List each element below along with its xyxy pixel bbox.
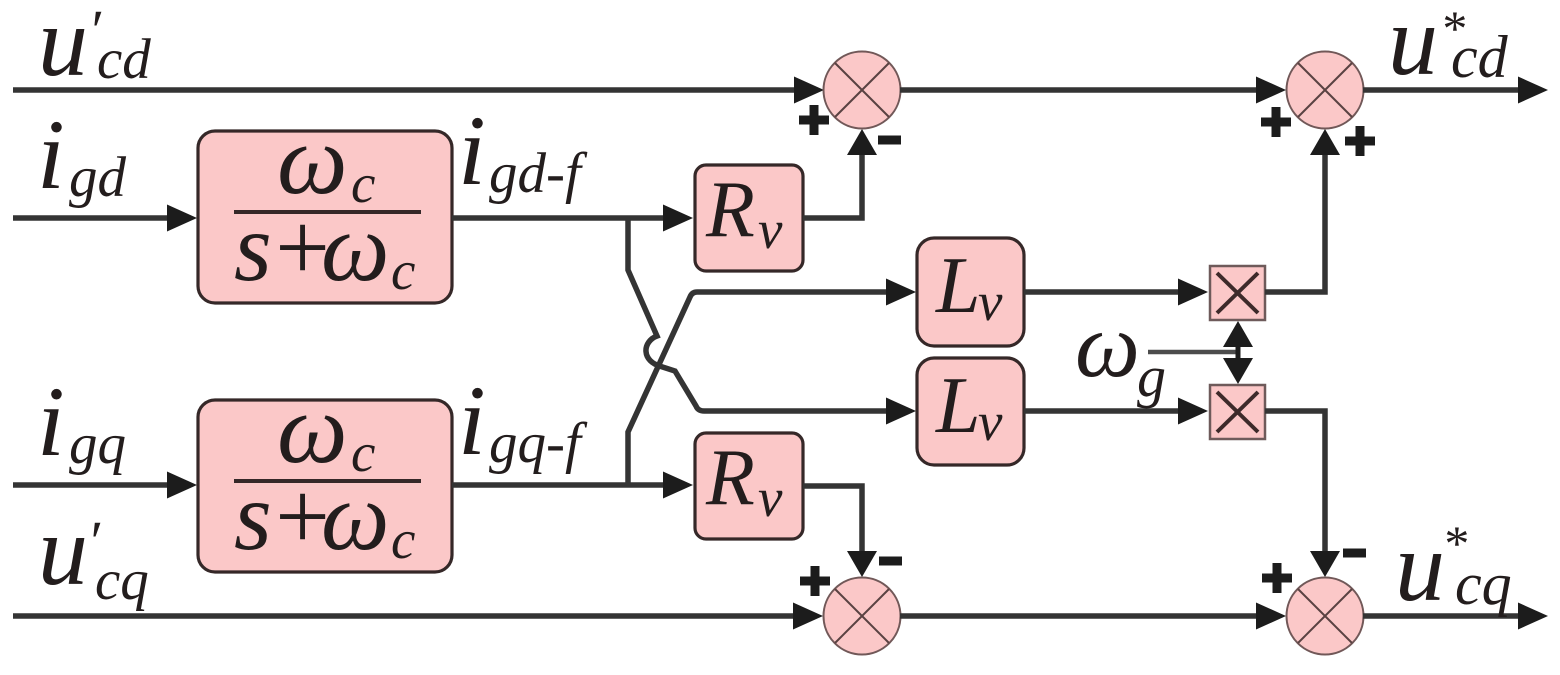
svg-text:s: s <box>234 463 272 570</box>
wire S2 to output u*cd <box>1363 77 1548 104</box>
multiplier M1 <box>1210 266 1265 320</box>
wire wg double arrow into M1 and M2 <box>1223 321 1253 384</box>
svg-text:ω: ω <box>1075 294 1140 396</box>
svg-text:i: i <box>37 366 65 477</box>
wire wg feed <box>1148 350 1236 355</box>
node u*cd label <box>1388 0 1509 96</box>
svg-text:ω: ω <box>321 463 390 570</box>
node igd-f label <box>458 95 588 206</box>
wire S1 to S2 <box>900 77 1286 104</box>
svg-text:s: s <box>234 194 272 301</box>
svg-text:u: u <box>38 0 88 97</box>
wire M2 output down into summer S4 <box>1265 411 1340 577</box>
sign minus S1 <box>878 136 901 145</box>
summer S4 <box>1287 578 1364 655</box>
filter block F1 wc/(s+wc) <box>198 104 452 303</box>
summer S1 <box>824 52 901 129</box>
sign minus S3 <box>879 557 902 566</box>
svg-text:R: R <box>705 166 755 254</box>
wire igq-f from F2 to Rv2 with junction at x=628 <box>452 472 693 499</box>
wire u'cq input to summer S3 <box>13 603 823 630</box>
inductor block Lv2 <box>917 358 1024 465</box>
sign plus S2 left <box>1261 107 1291 137</box>
node igq label <box>37 366 126 477</box>
svg-text:gd: gd <box>69 146 127 209</box>
node u'cq label <box>38 495 149 612</box>
summer S2 <box>1287 52 1364 129</box>
wire branch D1 from igd-f junction crossing down to Lv2 (with hop) <box>628 216 916 425</box>
sign plus S2 right <box>1345 126 1375 156</box>
resistor block Rv1 <box>695 165 803 271</box>
sign plus S3 <box>800 566 830 596</box>
wire branch D2 from igq-f junction crossing up to Lv1 <box>628 279 916 488</box>
wire S4 to output u*cq <box>1363 603 1548 630</box>
wire Lv2 to multiplier M2 <box>1024 398 1208 425</box>
svg-text:v: v <box>758 467 783 528</box>
svg-text:cq: cq <box>95 549 149 612</box>
svg-text:u: u <box>1388 0 1438 96</box>
wire igq input to filter box F2 <box>13 472 197 499</box>
node igd label <box>37 99 127 210</box>
svg-text:c: c <box>391 509 415 570</box>
node wg label <box>1075 294 1166 409</box>
filter block F2 wc/(s+wc) <box>198 373 452 572</box>
svg-text:gq-f: gq-f <box>489 412 588 475</box>
svg-text:ω: ω <box>321 194 390 301</box>
multiplier M2 <box>1210 385 1265 439</box>
svg-text:i: i <box>458 365 486 476</box>
svg-text:v: v <box>978 391 1003 452</box>
sign minus S4 <box>1343 549 1366 558</box>
svg-text:cq: cq <box>1455 551 1512 617</box>
svg-text:cd: cd <box>97 28 151 91</box>
node u*cq label <box>1395 511 1512 622</box>
svg-text:gd-f: gd-f <box>489 142 588 205</box>
node igq-f label <box>458 365 588 476</box>
svg-text:gq: gq <box>69 413 126 476</box>
svg-text:L: L <box>935 362 981 450</box>
wire Lv1 to multiplier M1 <box>1024 279 1208 306</box>
svg-text:v: v <box>978 271 1003 332</box>
svg-text:u: u <box>1395 511 1445 622</box>
svg-text:cd: cd <box>1451 24 1509 90</box>
resistor block Rv2 <box>695 433 803 539</box>
svg-text:R: R <box>705 434 755 522</box>
wire igd-f from F1 to Rv1 with junction at x=628 <box>452 205 693 232</box>
wire igd input to filter box F1 <box>13 205 197 232</box>
svg-text:c: c <box>391 240 415 301</box>
svg-text:u: u <box>38 495 88 606</box>
svg-text:v: v <box>758 199 783 260</box>
inductor block Lv1 <box>917 238 1024 346</box>
wire u'cd input to summer S1 <box>13 77 824 104</box>
svg-text:L: L <box>935 242 981 330</box>
wire S3 to S4 <box>900 603 1286 630</box>
svg-text:i: i <box>458 95 486 206</box>
sign plus S4 <box>1262 563 1292 593</box>
sign plus S1 <box>799 105 829 135</box>
wire Rv2 output down into summer S3 <box>803 486 877 577</box>
summer S3 <box>824 578 901 655</box>
node u'cd label <box>38 0 151 97</box>
wire Rv1 output up into summer S1 <box>803 129 877 218</box>
wire M1 output up into summer S2 <box>1265 129 1340 292</box>
svg-text:i: i <box>37 99 65 210</box>
